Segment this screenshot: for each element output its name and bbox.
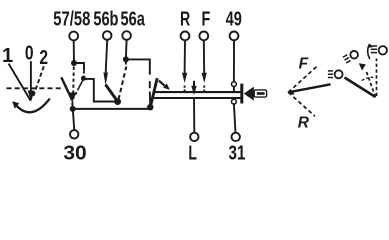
- svg-text:F: F: [202, 7, 211, 30]
- svg-text:49: 49: [226, 7, 242, 30]
- svg-text:1: 1: [2, 45, 13, 67]
- svg-text:R: R: [180, 7, 191, 30]
- svg-text:F: F: [299, 56, 309, 73]
- svg-text:0: 0: [25, 42, 34, 64]
- svg-text:57/58: 57/58: [53, 7, 90, 30]
- svg-text:30: 30: [63, 142, 86, 164]
- svg-text:L: L: [188, 141, 197, 164]
- svg-text:R: R: [298, 114, 310, 131]
- svg-text:2: 2: [39, 46, 48, 68]
- svg-text:56a: 56a: [121, 7, 146, 30]
- svg-text:56b: 56b: [93, 7, 118, 30]
- svg-text:31: 31: [229, 141, 246, 164]
